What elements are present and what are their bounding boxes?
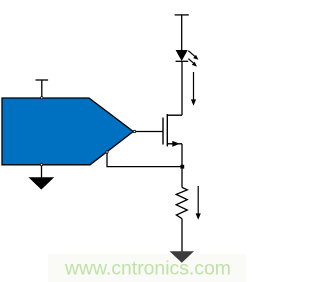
Q1 source arrow — [172, 141, 180, 147]
ground (power ground, dark) — [170, 251, 194, 262]
wire (Q1 source down to node) — [181, 144, 183, 167]
LED D1 — [176, 50, 189, 61]
current arrow (resistor branch) — [196, 186, 201, 220]
resistor R1 — [176, 187, 187, 218]
svg-text:www.cntronics.com: www.cntronics.com — [64, 258, 231, 280]
ground (driver ground) — [29, 166, 55, 190]
node A (source junction dot) — [180, 165, 184, 169]
pin (U1 ground pin, bottom) — [40, 163, 42, 165]
LED emission arrow 2 — [188, 59, 197, 67]
pin (U1 output pin at tip) — [133, 130, 135, 132]
power symbol VCC (LED supply) — [175, 15, 189, 50]
pin (U1 power pin, top) — [41, 97, 43, 99]
wire (resistor to ground) — [181, 219, 183, 252]
wire (Q1 drain up to LED cathode) — [181, 61, 183, 115]
current arrow (LED branch) — [191, 72, 196, 106]
transistor Q1 (N-channel MOSFET) — [163, 114, 182, 146]
pin (U1 feedback pin on slant) — [106, 151, 108, 153]
wire (gate wire from U1 output to Q1 gate) — [136, 131, 163, 133]
power symbol VCC (driver supply) — [36, 80, 49, 97]
driver U1 (blue pentagon buffer) — [2, 98, 133, 165]
wire (feedback from node A to U1 slant pin) — [107, 153, 182, 167]
wire (node A down to resistor) — [181, 167, 183, 188]
watermark background strip — [48, 254, 246, 282]
LED emission arrow 1 — [188, 51, 198, 60]
